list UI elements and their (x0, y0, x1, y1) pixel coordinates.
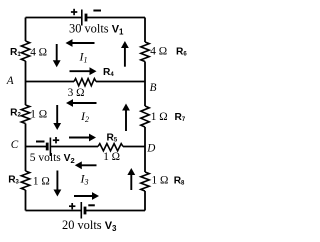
resistor R7 1 ohm (141, 106, 149, 127)
current arrow down (through R2) (56, 105, 58, 124)
battery V3 20 volts (81, 202, 85, 219)
resistor R1 4 ohm (21, 41, 29, 61)
svg-text:R6: R6 (176, 47, 187, 58)
V2 minus sign (36, 141, 45, 143)
battery V2 5 volts (47, 138, 50, 157)
current arrow right (above V3) (74, 195, 93, 197)
wire node A to R4 (26, 81, 75, 83)
svg-text:1 Ω: 1 Ω (33, 175, 50, 187)
svg-text:D: D (146, 142, 155, 154)
current arrow up (through R6) (124, 47, 126, 67)
svg-text:I3: I3 (80, 171, 89, 186)
current arrow right (through R4) (70, 70, 91, 72)
resistor R3 1 ohm (21, 171, 29, 190)
svg-text:5 volts V2: 5 volts V2 (30, 152, 75, 165)
wire R8 to bottom-right corner (144, 191, 146, 211)
svg-text:R3: R3 (8, 175, 19, 186)
svg-text:B: B (150, 82, 157, 94)
wire V3 to bottom-right (85, 210, 145, 212)
current arrow right (through R5) (69, 137, 90, 139)
wire top-left to V1 (26, 17, 82, 19)
wire left edge: top corner to R1 (25, 18, 27, 42)
V2 plus sign (53, 137, 59, 143)
wire node A to R2 (25, 82, 27, 106)
svg-text:A: A (6, 75, 14, 87)
svg-text:1 Ω: 1 Ω (152, 174, 169, 186)
svg-text:R4: R4 (103, 67, 114, 78)
svg-text:R1: R1 (10, 47, 21, 58)
V3 plus sign (69, 203, 75, 209)
wire node B to R7 (144, 82, 146, 107)
wire R6 to node B (144, 62, 146, 82)
svg-text:1 Ω: 1 Ω (151, 111, 168, 123)
svg-text:C: C (11, 139, 19, 151)
svg-text:I1: I1 (79, 49, 88, 64)
svg-text:R2: R2 (10, 108, 21, 119)
current arrow down (through R1) (56, 44, 58, 61)
current arrow left (row C, right of V2 label) (81, 164, 97, 166)
current arrow down (through R3) (56, 171, 58, 191)
resistor R5 1 ohm (98, 144, 123, 151)
wire R3 to bottom-left corner (25, 190, 27, 211)
svg-text:4 Ω: 4 Ω (30, 47, 47, 59)
current arrow left (below R4) (72, 102, 97, 104)
resistor R4 3 ohm (74, 79, 96, 86)
wire R1 to node A (25, 61, 27, 82)
svg-text:20 volts V3: 20 volts V3 (62, 218, 117, 233)
wire node C to V2 (26, 146, 47, 148)
svg-text:4 Ω: 4 Ω (150, 46, 167, 58)
wire V2 to R5 (50, 146, 98, 148)
wire R2 to node C (25, 124, 27, 147)
wire right edge: top corner to R6 (144, 18, 146, 43)
current arrow I1 left (72, 42, 95, 44)
wire R5 to node D (123, 146, 145, 148)
svg-text:1 Ω: 1 Ω (30, 108, 47, 120)
wire R4 to node B (96, 81, 145, 83)
V3 minus sign (88, 204, 95, 206)
V1 minus sign (93, 10, 101, 12)
wire bottom-left to V3 (26, 210, 82, 212)
wire R7 to node D (144, 127, 146, 147)
wire node C to R3 (25, 147, 27, 172)
wire V1 to top-right (86, 17, 145, 19)
current arrow up (through R7) (125, 110, 127, 132)
wire node D to R8 (144, 147, 146, 173)
current arrow up (through R8) (130, 174, 132, 190)
resistor R8 1 ohm (141, 172, 149, 191)
svg-text:R8: R8 (174, 176, 185, 187)
resistor R6 4 ohm (141, 42, 149, 62)
svg-text:R7: R7 (175, 112, 186, 123)
battery V1 30 volts (82, 10, 86, 26)
svg-text:1 Ω: 1 Ω (103, 151, 120, 163)
V1 plus sign (71, 9, 77, 15)
svg-text:3 Ω: 3 Ω (68, 87, 85, 99)
svg-text:R5: R5 (107, 133, 118, 144)
svg-text:I2: I2 (80, 109, 89, 124)
resistor R2 1 ohm (21, 105, 29, 124)
svg-text:30 volts V1: 30 volts V1 (69, 22, 124, 37)
